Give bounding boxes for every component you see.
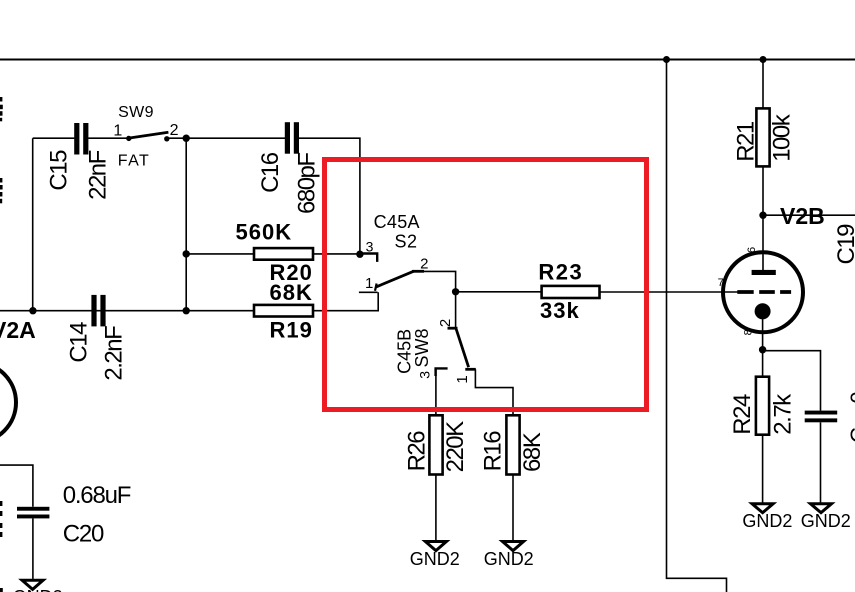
switch S2 pin1 stub bbox=[359, 291, 378, 293]
left edge text fragment second bbox=[0, 178, 2, 183]
wire R19 row from left edge bbox=[0, 310, 254, 312]
svg-text:GND2: GND2 bbox=[801, 511, 851, 531]
svg-text:C20: C20 bbox=[63, 521, 104, 548]
svg-text:R16: R16 bbox=[480, 431, 507, 472]
svg-text:C15: C15 bbox=[46, 150, 73, 191]
svg-text:560K: 560K bbox=[236, 220, 293, 245]
svg-text:R21: R21 bbox=[732, 121, 759, 162]
switch S2 arm tick bbox=[375, 284, 377, 291]
capacitor C14 bbox=[91, 295, 96, 327]
wire SW9 pin2 to junction bbox=[167, 137, 186, 139]
wire bypass cap to ground bbox=[820, 422, 822, 502]
svg-text:33k: 33k bbox=[540, 298, 580, 323]
svg-text:2: 2 bbox=[437, 319, 454, 327]
switch SW9 bbox=[126, 136, 131, 141]
resistor R24 bbox=[756, 377, 769, 435]
wire R16 to ground bbox=[512, 475, 514, 541]
svg-text:V2B: V2B bbox=[780, 203, 825, 229]
node cathode junction bbox=[759, 346, 766, 353]
svg-text:2: 2 bbox=[420, 255, 428, 272]
svg-text:GND2: GND2 bbox=[410, 549, 460, 569]
node top bus / long vertical bbox=[663, 56, 670, 63]
svg-text:0.: 0. bbox=[846, 385, 855, 403]
wire R21 to V2B node bbox=[762, 166, 764, 215]
node S2 output bbox=[452, 288, 459, 295]
wire node down to SW8 pin2 bbox=[455, 292, 457, 328]
node R19 row / vertical bbox=[183, 307, 190, 314]
left edge text fragment upper bbox=[0, 97, 2, 102]
svg-text:C: C bbox=[846, 427, 855, 443]
switch SW8 pin2 stub bbox=[448, 327, 458, 330]
wire 560K row bbox=[186, 253, 254, 255]
wire SW8 pin1 to R16 bbox=[475, 369, 513, 415]
resistor R23 bbox=[542, 286, 600, 298]
triode V2B envelope bbox=[723, 252, 803, 332]
svg-text:68K: 68K bbox=[270, 280, 313, 305]
wire top bus to R21 bbox=[762, 60, 764, 109]
wire V2B net to right edge bbox=[763, 214, 855, 216]
wire vertical from FAT junction down bbox=[185, 138, 187, 311]
svg-text:3: 3 bbox=[417, 371, 433, 379]
red highlight box bbox=[325, 160, 647, 410]
switch S2 pin3 hook bbox=[360, 254, 377, 262]
wire C20 to ground bbox=[32, 518, 34, 579]
wire R20 to S2 pin3 bbox=[313, 253, 360, 255]
svg-text:C19: C19 bbox=[833, 224, 855, 265]
svg-text:7: 7 bbox=[718, 277, 724, 289]
capacitor bypass plate bottom bbox=[805, 418, 838, 422]
ground GND2 bypass cap bbox=[811, 504, 832, 513]
svg-text:22nF: 22nF bbox=[84, 150, 111, 200]
resistor R20 bbox=[254, 248, 313, 260]
switch S2 arm bbox=[376, 271, 414, 287]
ground GND2 R24 bbox=[752, 504, 773, 513]
svg-text:C14: C14 bbox=[66, 322, 93, 363]
svg-text:2: 2 bbox=[170, 122, 179, 139]
resistor R19 bbox=[254, 305, 313, 317]
wire cathode down to node bbox=[762, 311, 764, 349]
node V2A corner junction bbox=[29, 307, 36, 314]
wire C20 branch from left edge bbox=[0, 465, 33, 507]
svg-text:C45A: C45A bbox=[374, 212, 420, 232]
svg-text:100k: 100k bbox=[768, 113, 795, 162]
wire S2 pin2 to node bbox=[424, 271, 456, 291]
left edge text fragment near C20 bbox=[0, 501, 2, 506]
wire C15 corner vertical bbox=[32, 138, 34, 311]
ground GND2 C20 bbox=[22, 580, 43, 589]
svg-text:68K: 68K bbox=[519, 432, 546, 472]
svg-text:1: 1 bbox=[454, 375, 471, 383]
ground GND2 R16 bbox=[503, 542, 524, 551]
wire SW8 pin3 down to R26 bbox=[435, 368, 437, 415]
triode V2B cathode dot bbox=[755, 303, 771, 319]
switch SW8 pin3 hook bbox=[436, 368, 448, 376]
resistor R26 bbox=[429, 415, 442, 474]
wire R19 to switch pin1 riser bbox=[313, 292, 378, 310]
wire R26 to ground bbox=[435, 475, 437, 541]
switch SW8 arm bbox=[456, 329, 469, 368]
wire long vertical right of red box down and jog to bottom edge bbox=[667, 60, 727, 592]
svg-text:1: 1 bbox=[113, 123, 122, 140]
triode V2B grid dashes bbox=[737, 290, 791, 294]
capacitor C20 plate bottom bbox=[17, 515, 49, 519]
svg-text:S2: S2 bbox=[395, 232, 418, 252]
svg-text:R23: R23 bbox=[538, 259, 583, 284]
svg-text:680pF: 680pF bbox=[293, 153, 320, 214]
svg-text:3: 3 bbox=[366, 239, 374, 255]
svg-text:SW8: SW8 bbox=[412, 328, 432, 367]
svg-text:R19: R19 bbox=[270, 318, 313, 343]
wire R24 to ground bbox=[762, 435, 764, 503]
capacitor C15 bbox=[74, 123, 79, 155]
svg-text:2.2nF: 2.2nF bbox=[100, 326, 127, 381]
svg-text:SW9: SW9 bbox=[118, 104, 154, 121]
capacitor C20 plate top bbox=[17, 507, 49, 511]
svg-text:C16: C16 bbox=[257, 152, 284, 193]
triode V2A partial envelope bbox=[0, 363, 16, 443]
svg-text:1: 1 bbox=[365, 275, 373, 292]
svg-text:R24: R24 bbox=[729, 394, 756, 435]
wire left stage row C15 bbox=[33, 137, 129, 139]
wire cathode node to bypass cap bbox=[763, 351, 821, 411]
node top bus / R21 branch bbox=[760, 56, 767, 63]
ground GND2 R26 bbox=[425, 542, 446, 551]
node FAT junction bbox=[183, 135, 190, 142]
switch S2 pin2 stub bbox=[412, 270, 424, 273]
node V2B bbox=[759, 212, 766, 219]
wire top supply bus bbox=[0, 59, 855, 61]
svg-text:V2A: V2A bbox=[0, 317, 36, 343]
svg-text:2.7k: 2.7k bbox=[769, 393, 796, 435]
svg-text:GND2: GND2 bbox=[13, 587, 63, 592]
wire cathode node to R24 bbox=[762, 350, 764, 377]
wire C16 right to corner down to S2 pin3 node bbox=[299, 138, 360, 254]
triode V2B plate bbox=[752, 270, 776, 275]
svg-text:GND2: GND2 bbox=[742, 511, 792, 531]
svg-text:8: 8 bbox=[743, 329, 755, 335]
svg-text:GND2: GND2 bbox=[484, 549, 534, 569]
capacitor bypass plate top bbox=[805, 411, 838, 415]
node S2 pin3 bbox=[356, 251, 363, 258]
wire V2B node to tube plate bbox=[762, 215, 764, 271]
wire node to R23 bbox=[456, 291, 542, 293]
svg-text:6: 6 bbox=[746, 247, 758, 253]
resistor R21 bbox=[756, 108, 769, 166]
wire junction to C16 bbox=[186, 137, 285, 139]
switch SW8 pin1 stub bbox=[465, 368, 476, 371]
svg-text:R26: R26 bbox=[404, 431, 431, 472]
resistor R16 bbox=[506, 415, 519, 474]
node 560K row bbox=[183, 250, 190, 257]
svg-text:220K: 220K bbox=[442, 421, 469, 473]
svg-text:FAT: FAT bbox=[118, 153, 150, 170]
capacitor C16 bbox=[285, 122, 290, 154]
left edge text fragment bottom bbox=[0, 588, 3, 592]
svg-text:0.68uF: 0.68uF bbox=[63, 482, 131, 509]
wire R23 to tube grid bbox=[600, 291, 739, 293]
